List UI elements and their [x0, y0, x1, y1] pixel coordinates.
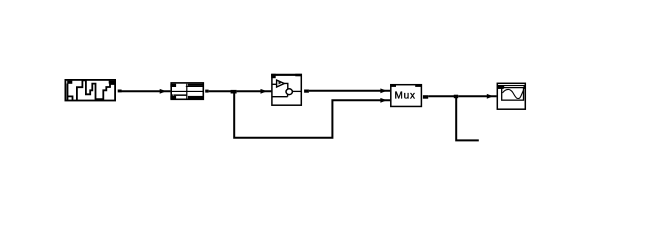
quantizer block B2 icon upper-left bar	[170, 84, 176, 87]
arrowhead into subsystem block B3	[261, 89, 268, 94]
wire J2 to scope	[458, 95, 496, 97]
scope block screen left margin block	[497, 85, 503, 89]
quantizer block B2 icon lower-left long bar	[172, 94, 187, 96]
source block B1 staircase waveform first drop	[67, 84, 69, 101]
source block B1 body	[65, 80, 115, 101]
subsystem block B3 icon bottom feedback line	[272, 94, 287, 97]
arrowhead into Mux input 2	[380, 98, 387, 103]
subsystem block B3 icon output line from circle to right border	[292, 90, 301, 92]
quantizer block B2 body	[171, 83, 203, 99]
junction J1	[231, 90, 237, 94]
wire J1 to B3	[237, 90, 272, 92]
subsystem block B3 icon wire from triangle tip down to circle	[284, 83, 288, 88]
junction J2	[454, 95, 458, 99]
source block B1 output port stub	[118, 90, 122, 93]
source block B1 staircase waveform bottom-left loop	[68, 96, 73, 100]
subsystem block B3 top-right corner mark	[295, 74, 302, 77]
source block B1 top-right corner mark	[109, 81, 116, 84]
quantizer block B2 icon central vertical bar	[186, 84, 187, 99]
scope block title bar with slot	[497, 85, 526, 88]
Mux block label text	[395, 91, 416, 102]
scope block screen frame	[502, 88, 524, 101]
quantizer block B2 icon lower-left small block	[170, 96, 176, 99]
arrowhead into Mux input 1	[380, 88, 387, 93]
quantizer block B2 output port stub	[205, 90, 208, 93]
subsystem block B3 output port stub	[304, 90, 309, 93]
wire B1 to B2	[121, 90, 170, 92]
quantizer block B2 icon upper-right bar	[186, 84, 204, 87]
Mux block output port stub	[423, 95, 428, 99]
subsystem block B3 body	[271, 74, 302, 105]
subsystem block B3 top-left corner mark	[271, 74, 276, 78]
wire B2 to junction J1	[209, 90, 231, 92]
arrowhead into scope block	[487, 94, 494, 99]
wire B3 to Mux input 1	[309, 90, 390, 92]
branch wire from J1 down under B3 to Mux input 2	[234, 91, 390, 138]
quantizer block B2 icon lower-right block	[188, 96, 204, 99]
Mux block top-left corner mark	[390, 84, 396, 87]
svg-text:Mux: Mux	[395, 91, 416, 102]
subsystem block B3 comparator triangle icon	[272, 80, 284, 87]
scope block body	[497, 83, 525, 109]
branch wire J2 down to bottom edge	[456, 96, 479, 140]
scope block screen right margin block	[524, 85, 526, 89]
scope block sine wave icon	[503, 89, 524, 98]
Mux block top-right corner mark	[415, 84, 422, 87]
arrowhead into quantizer block B2	[160, 89, 167, 94]
source block B1 top-left corner mark	[67, 81, 72, 84]
quantizer block B2 icon middle horizontal line	[170, 91, 204, 92]
wire Mux to junction J2	[428, 95, 454, 97]
Mux block body	[391, 85, 422, 107]
subsystem block B3 quantizer circle icon	[286, 89, 292, 95]
source block B1 staircase waveform main trace	[77, 80, 115, 100]
